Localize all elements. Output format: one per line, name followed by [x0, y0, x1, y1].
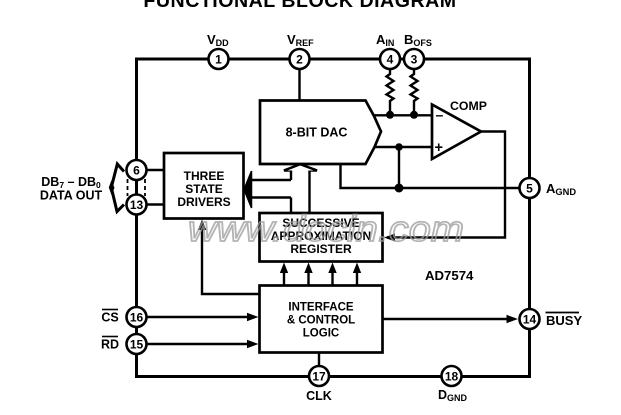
outer boundary rectangle	[137, 59, 530, 377]
svg-text:–: –	[436, 107, 444, 123]
watermark www.docin.com	[188, 208, 464, 249]
label CS with overline	[101, 310, 118, 325]
svg-text:AD7574: AD7574	[425, 268, 474, 283]
label VDD	[207, 32, 229, 48]
label CLK	[306, 389, 332, 403]
junction dot AIN resistor on OUT1 line	[386, 111, 394, 119]
label BOFS	[404, 32, 432, 48]
svg-text:www.docin.com: www.docin.com	[188, 208, 464, 249]
wire DAC OUT1 to comparator minus input	[372, 114, 433, 116]
wire DAC OUT2 to comparator plus input	[373, 146, 434, 148]
wire DAC bottom to AGND pin 5	[341, 164, 520, 188]
hollow bus arrow branch DAC/SAR to three state drivers	[244, 171, 291, 208]
svg-text:INTERFACE: INTERFACE	[288, 302, 354, 314]
pin 15 RD	[127, 334, 147, 354]
interface and control logic block	[260, 286, 383, 353]
svg-text:6: 6	[133, 164, 140, 178]
pin 16 CS	[127, 307, 147, 327]
pin 5 AGND	[520, 178, 540, 198]
wire pin 13 to drivers	[147, 203, 165, 205]
pin 4 AIN	[380, 49, 400, 69]
svg-text:+: +	[435, 140, 443, 156]
pin 2 VREF	[290, 49, 310, 69]
resistor on AIN (pin 4)	[387, 69, 394, 115]
svg-text:STATE: STATE	[185, 182, 223, 196]
svg-text:DGND: DGND	[438, 388, 468, 403]
pin 18 DGND	[442, 366, 462, 386]
svg-text:BUSY: BUSY	[546, 313, 582, 328]
svg-text:COMP: COMP	[450, 99, 487, 113]
junction dot BOFS resistor on OUT1 line	[410, 111, 418, 119]
wire interface to SAR arrow 4	[353, 263, 361, 286]
svg-text:5: 5	[526, 182, 533, 196]
svg-text:DRIVERS: DRIVERS	[177, 195, 230, 209]
svg-text:8-BIT DAC: 8-BIT DAC	[286, 126, 348, 140]
pin 6	[127, 160, 147, 180]
junction dot on AGND line	[395, 184, 404, 193]
label DB7-DB0 DATA OUT	[40, 175, 103, 203]
svg-text:VREF: VREF	[287, 32, 314, 48]
pin 17 CLK	[309, 366, 329, 386]
svg-text:18: 18	[445, 370, 459, 384]
svg-text:FUNCTIONAL BLOCK DIAGRAM: FUNCTIONAL BLOCK DIAGRAM	[143, 0, 456, 12]
svg-text:CLK: CLK	[306, 389, 332, 403]
successive approximation register block	[260, 213, 383, 262]
svg-text:1: 1	[215, 53, 222, 67]
label RD with overline	[101, 337, 119, 352]
svg-text:17: 17	[312, 370, 326, 384]
pin 13	[127, 195, 147, 215]
8-bit DAC U1	[260, 101, 381, 165]
arrowhead into SAR right edge	[384, 234, 395, 242]
svg-text:THREE: THREE	[184, 169, 225, 183]
wire interface to SAR arrow 1	[280, 263, 288, 286]
label VREF	[287, 32, 314, 48]
comparator U2	[432, 105, 481, 160]
svg-text:13: 13	[130, 198, 144, 212]
wire interface logic to three state drivers enable	[198, 220, 260, 295]
svg-text:& CONTROL: & CONTROL	[287, 315, 355, 327]
svg-text:LOGIC: LOGIC	[303, 328, 339, 340]
svg-text:3: 3	[411, 53, 418, 67]
svg-text:BOFS: BOFS	[404, 32, 432, 48]
title FUNCTIONAL BLOCK DIAGRAM (cut off at top)	[143, 0, 456, 12]
wire CS pin16 to interface logic	[147, 313, 259, 321]
pin 14 BUSY	[520, 309, 540, 329]
svg-text:CS: CS	[101, 311, 118, 325]
wire RD pin15 to interface logic	[147, 340, 259, 348]
wire pin2 VREF to DAC top	[298, 69, 300, 101]
label BUSY with overline	[546, 313, 583, 329]
wire interface to SAR arrow 2	[304, 263, 312, 286]
svg-text:AIN: AIN	[376, 32, 394, 48]
wire interface logic to BUSY pin 14	[383, 315, 519, 323]
svg-text:AGND: AGND	[546, 181, 576, 197]
junction dot on OUT2 line	[395, 143, 403, 151]
wire interface logic to CLK pin 17	[318, 353, 320, 367]
svg-text:16: 16	[130, 311, 144, 325]
svg-text:VDD: VDD	[207, 32, 229, 48]
wire pin 6 to drivers	[147, 169, 165, 171]
wire comparator output to SAR input	[387, 132, 505, 238]
label AD7574	[425, 268, 474, 283]
wire OUT2 junction down to AGND line	[398, 147, 400, 188]
svg-text:2: 2	[296, 53, 303, 67]
wire interface to SAR arrow 3	[328, 263, 336, 286]
svg-text:RD: RD	[101, 338, 119, 352]
hollow arrow DATA OUT (to left of pins 6/13)	[109, 164, 124, 212]
pin 3 BOFS	[404, 49, 424, 69]
label DGND	[438, 388, 468, 403]
svg-text:4: 4	[387, 53, 394, 67]
pin 1 VDD	[209, 49, 229, 69]
label COMP	[450, 99, 487, 113]
svg-text:15: 15	[130, 338, 144, 352]
svg-text:14: 14	[523, 313, 537, 327]
dashed bus between pin 6 and pin 13	[128, 179, 146, 196]
resistor on BOFS (pin 3)	[411, 69, 418, 115]
three state drivers block	[164, 153, 244, 219]
hollow bus arrow SAR to DAC	[284, 164, 317, 213]
label AGND	[546, 181, 576, 197]
svg-text:DATA OUT: DATA OUT	[40, 189, 103, 203]
label AIN	[376, 32, 394, 48]
